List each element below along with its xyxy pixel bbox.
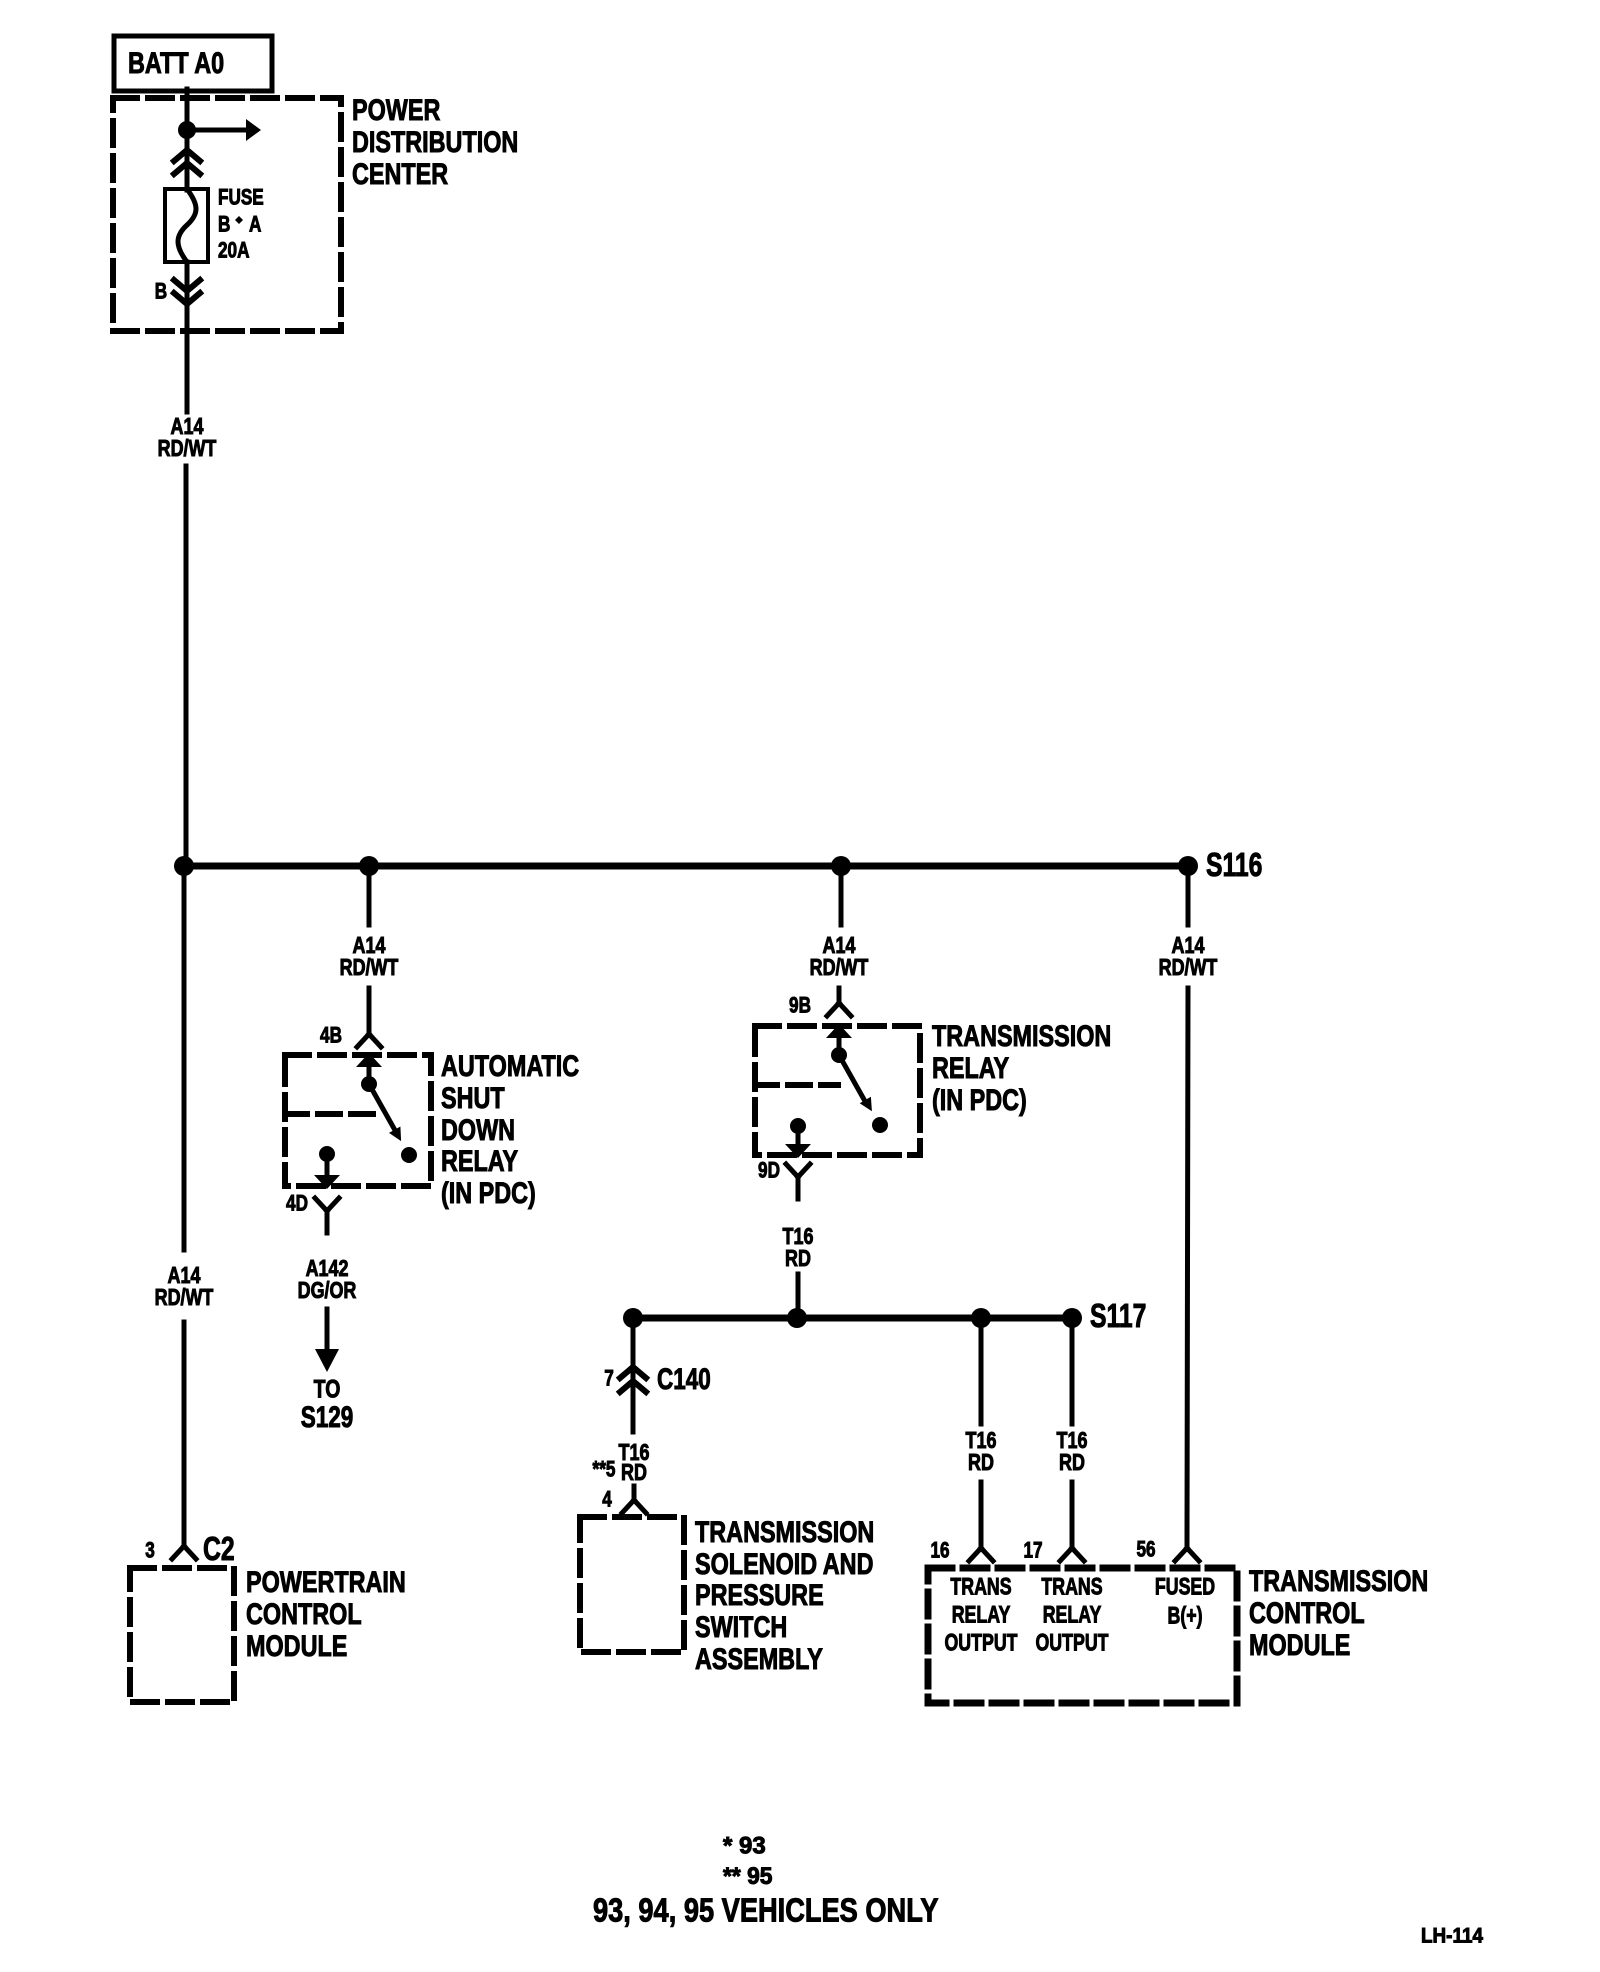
wire T16 RD from S117 to TCM pin 16 [979, 1318, 984, 1534]
label FUSE B A 20A [218, 186, 264, 264]
automatic shut down relay dashed box [285, 1055, 431, 1186]
svg-text:RD/WT: RD/WT [340, 955, 399, 981]
svg-text:7: 7 [604, 1367, 614, 1392]
svg-text:20A: 20A [218, 239, 249, 264]
wire A14 RD/WT from S116 to ASD relay [367, 866, 372, 1022]
transmission relay pivot dot [831, 1047, 847, 1063]
label A14 RD/WT (ASD branch) [340, 933, 399, 981]
connector pin 56 female half [1175, 1534, 1199, 1561]
power distribution center dashed box [113, 98, 341, 331]
svg-text:ASSEMBLY: ASSEMBLY [695, 1642, 823, 1675]
label TRANSMISSION RELAY (IN PDC) [932, 1019, 1111, 1116]
svg-text:BATT A0: BATT A0 [128, 46, 224, 79]
svg-text:TRANSMISSION: TRANSMISSION [695, 1515, 874, 1548]
label **5 [593, 1458, 616, 1483]
ASD relay pivot dot [361, 1076, 377, 1092]
svg-text:CENTER: CENTER [352, 157, 448, 190]
svg-text:LH-114: LH-114 [1421, 1924, 1483, 1947]
svg-text:**5: **5 [593, 1458, 616, 1483]
svg-text:RD/WT: RD/WT [158, 436, 217, 462]
label T16 RD (pin 16 wire) [966, 1428, 997, 1476]
transmission control module dashed box [928, 1568, 1237, 1703]
svg-text:DISTRIBUTION: DISTRIBUTION [352, 125, 518, 158]
svg-text:RD/WT: RD/WT [810, 955, 869, 981]
junction dot at left of S116 bus [174, 856, 194, 876]
svg-text:AUTOMATIC: AUTOMATIC [441, 1049, 579, 1082]
wire A14 RD/WT from S116 to TCM pin 56 [1187, 866, 1188, 1534]
svg-text:4: 4 [602, 1488, 612, 1513]
splice bus S116 [184, 863, 1188, 870]
transmission relay pin 9B male arrow [826, 1024, 852, 1055]
wire A14 RD/WT from PDC down to splice S116 [186, 304, 187, 866]
svg-text:RELAY: RELAY [441, 1144, 518, 1177]
connector pin 3 of C2 at PCM [172, 1532, 196, 1559]
note 93 94 95 VEHICLES ONLY [593, 1893, 939, 1929]
svg-text:(IN PDC): (IN PDC) [441, 1176, 536, 1209]
svg-text:56: 56 [1136, 1538, 1155, 1563]
svg-text:RELAY: RELAY [1043, 1602, 1102, 1628]
connector C140 chevrons [620, 1367, 646, 1392]
pin number 17 [1023, 1539, 1042, 1564]
pin label 9B [789, 994, 811, 1019]
svg-text:CONTROL: CONTROL [1249, 1596, 1365, 1629]
label FUSED B(+) [1155, 1574, 1215, 1629]
pin label 4D [286, 1192, 308, 1217]
label TRANSMISSION CONTROL MODULE [1249, 1564, 1428, 1661]
label A142 DG/OR [298, 1256, 357, 1304]
svg-text:17: 17 [1023, 1539, 1042, 1564]
label T16 RD (solenoid wire) [619, 1440, 650, 1486]
junction dot S117 to pin 16 [971, 1308, 991, 1328]
svg-text:S129: S129 [301, 1400, 354, 1434]
label POWERTRAIN CONTROL MODULE [246, 1565, 406, 1662]
svg-text:16: 16 [930, 1539, 949, 1564]
pin label B [155, 280, 167, 305]
svg-text:RD: RD [1059, 1450, 1085, 1476]
pin number 7 [604, 1367, 614, 1392]
transmission relay contact dot [872, 1117, 888, 1133]
pin number 56 [1136, 1538, 1155, 1563]
svg-text:DOWN: DOWN [441, 1113, 515, 1146]
svg-text:DG/OR: DG/OR [298, 1278, 357, 1304]
inline connector chevrons below fuse (pin B) [174, 280, 200, 304]
footnote * 93 [723, 1833, 766, 1860]
battery feed terminal box BATT A0 [114, 36, 272, 91]
svg-text:A: A [249, 213, 261, 238]
svg-text:POWERTRAIN: POWERTRAIN [246, 1565, 406, 1598]
svg-text:(IN PDC): (IN PDC) [932, 1083, 1027, 1116]
svg-text:S116: S116 [1206, 848, 1262, 884]
svg-text:FUSED: FUSED [1155, 1574, 1215, 1600]
transmission relay dashed box [755, 1026, 920, 1155]
label TRANS RELAY OUTPUT (pin 17) [1035, 1574, 1108, 1656]
svg-text:S117: S117 [1090, 1299, 1146, 1335]
svg-text:RELAY: RELAY [932, 1051, 1009, 1084]
junction dot S116 branch to ASD relay [359, 856, 379, 876]
svg-text:TRANSMISSION: TRANSMISSION [932, 1019, 1111, 1052]
svg-text:* 93: * 93 [723, 1833, 766, 1860]
wire from S117 to connector C140 [631, 1318, 636, 1432]
svg-text:B(+): B(+) [1167, 1603, 1202, 1629]
ASD relay contact dot [401, 1147, 417, 1163]
page reference LH-114 [1421, 1924, 1483, 1947]
label T16 RD (relay output wire) [783, 1224, 814, 1272]
label S116 [1206, 848, 1262, 884]
junction dot S116 branch to transmission relay [831, 856, 851, 876]
svg-text:OUTPUT: OUTPUT [1035, 1630, 1108, 1656]
svg-text:TRANS: TRANS [950, 1574, 1011, 1600]
svg-text:9B: 9B [789, 994, 811, 1019]
label A14 RD/WT (transmission relay branch) [810, 933, 869, 981]
svg-text:RD/WT: RD/WT [1159, 955, 1218, 981]
ASD relay switch blade [369, 1084, 401, 1141]
connector 4D female half [315, 1198, 339, 1233]
svg-text:MODULE: MODULE [246, 1629, 347, 1662]
svg-text:PRESSURE: PRESSURE [695, 1578, 824, 1611]
pin label 4B [320, 1024, 342, 1049]
arrow feed to other circuits [193, 119, 261, 141]
wire from BATT A0 into PDC [185, 89, 190, 126]
junction dot S117 to C140 [623, 1308, 643, 1328]
splice bus S117 [633, 1315, 1072, 1322]
connector 9D female half [786, 1164, 810, 1199]
label AUTOMATIC SHUT DOWN RELAY (IN PDC) [441, 1049, 579, 1209]
pin number 16 [930, 1539, 949, 1564]
label TRANS RELAY OUTPUT (pin 16) [944, 1574, 1017, 1656]
label A14 RD/WT (left wire lower) [155, 1263, 214, 1311]
pin number 3 [145, 1539, 155, 1564]
ASD relay pin 4B male arrow [356, 1053, 382, 1084]
svg-text:** 95: ** 95 [723, 1863, 772, 1890]
ASD relay pin 4D male arrow down [314, 1154, 340, 1189]
powertrain control module dashed box [130, 1568, 234, 1702]
svg-text:RD: RD [785, 1246, 811, 1272]
svg-text:3: 3 [145, 1539, 155, 1564]
label TRANSMISSION SOLENOID AND PRESSURE SWITCH ASSEMBLY [695, 1515, 874, 1675]
svg-text:RD: RD [968, 1450, 994, 1476]
svg-text:4B: 4B [320, 1024, 342, 1049]
svg-text:RD/WT: RD/WT [155, 1285, 214, 1311]
label T16 RD (pin 17 wire) [1057, 1428, 1088, 1476]
svg-text:4D: 4D [286, 1192, 308, 1217]
transmission relay pin 9D male arrow down [785, 1126, 811, 1158]
svg-text:TO: TO [314, 1375, 341, 1403]
svg-text:MODULE: MODULE [1249, 1628, 1350, 1661]
svg-text:9D: 9D [758, 1159, 780, 1184]
svg-text:RD: RD [621, 1460, 647, 1486]
node S117 end dot [1062, 1308, 1082, 1328]
pin label 9D [758, 1159, 780, 1184]
svg-text:RELAY: RELAY [952, 1602, 1011, 1628]
connector label C2 [203, 1532, 235, 1568]
connector 9B female half [827, 989, 851, 1016]
inline connector chevrons above fuse [174, 150, 200, 174]
wire T16 RD from relay to splice S117 [796, 1274, 801, 1318]
label A14 RD/WT (top left wire) [158, 414, 217, 462]
svg-text:SOLENOID AND: SOLENOID AND [695, 1547, 873, 1580]
connector pin 16 female half [969, 1534, 993, 1561]
arrow to S129 [315, 1309, 339, 1372]
svg-text:93, 94, 95 VEHICLES ONLY: 93, 94, 95 VEHICLES ONLY [593, 1893, 939, 1929]
svg-text:B: B [218, 213, 230, 238]
wire A14 RD/WT from S116 to transmission relay [839, 866, 841, 992]
svg-text:B: B [155, 280, 167, 305]
label POWER DISTRIBUTION CENTER [352, 93, 518, 190]
svg-text:POWER: POWER [352, 93, 440, 126]
svg-text:CONTROL: CONTROL [246, 1597, 362, 1630]
svg-text:TRANSMISSION: TRANSMISSION [1249, 1564, 1428, 1597]
transmission relay switch blade [839, 1055, 872, 1111]
footnote ** 95 [723, 1863, 772, 1890]
svg-text:C2: C2 [203, 1532, 235, 1568]
svg-text:SHUT: SHUT [441, 1081, 505, 1114]
ASD relay output dot [319, 1146, 335, 1162]
node S116 end dot [1178, 856, 1198, 876]
wire A14 RD/WT from S116 to PCM [182, 866, 187, 1532]
junction node in PDC [178, 121, 196, 139]
svg-text:OUTPUT: OUTPUT [944, 1630, 1017, 1656]
label S117 [1090, 1299, 1146, 1335]
svg-text:SWITCH: SWITCH [695, 1610, 787, 1643]
transmission relay output dot [790, 1118, 806, 1134]
svg-text:C140: C140 [657, 1362, 711, 1396]
wire below fuse [185, 262, 190, 306]
transmission solenoid assembly dashed box [580, 1517, 684, 1652]
wire from junction to fuse [185, 134, 190, 190]
junction dot S117 from relay [787, 1308, 807, 1328]
connector pin 4 female half [622, 1486, 646, 1513]
connector pin 17 female half [1060, 1534, 1084, 1561]
fuse B A 20A [165, 189, 208, 262]
label A14 RD/WT (pin 56 wire) [1159, 933, 1218, 981]
pin number 4 [602, 1488, 612, 1513]
connector 4B female half [357, 1020, 381, 1047]
svg-text:TRANS: TRANS [1041, 1574, 1102, 1600]
wire T16 RD from S117 to TCM pin 17 [1070, 1318, 1075, 1534]
label TO S129 [301, 1375, 354, 1434]
connector label C140 [657, 1362, 711, 1396]
svg-text:FUSE: FUSE [218, 186, 264, 211]
